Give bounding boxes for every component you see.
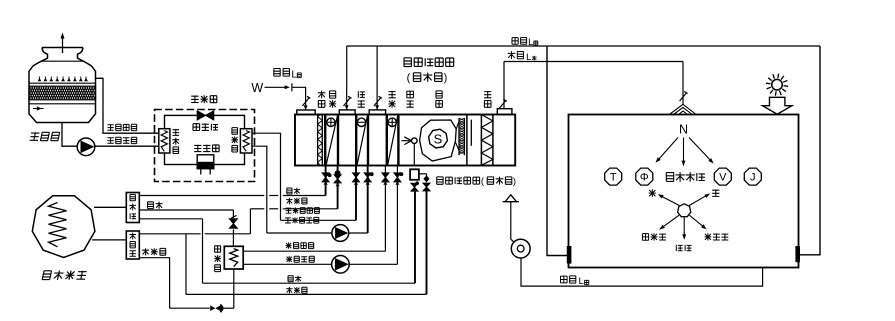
ceiling diffuser (nested chevrons) — [669, 104, 696, 114]
label cooling return water — [107, 124, 136, 130]
svg-text:): ) — [444, 72, 448, 84]
sun symbol — [772, 79, 783, 90]
pollutant source polygon — [678, 204, 691, 217]
cooling tower neck line — [41, 60, 85, 62]
throttle valve (filled bowtie) on loop top — [197, 111, 214, 120]
label hot water supply — [286, 256, 314, 262]
pipe steam line 1 to AHU preheater — [139, 195, 264, 197]
arrow harmful substances (down-right) — [689, 215, 703, 227]
label steam humidifier line — [288, 276, 301, 282]
pipe chilled supply riser — [367, 166, 369, 234]
pipe hot water return (line5) to AHU reheater — [243, 250, 385, 252]
cooling tower spray nozzles — [38, 78, 42, 82]
svg-text:Φ: Φ — [640, 172, 649, 184]
label condensate (ning-jie-shui) line2 — [286, 198, 307, 204]
svg-text:(: ( — [407, 72, 411, 84]
medium-efficiency filter band (zhong-xiao) — [480, 115, 482, 166]
cooling tower basin line — [29, 103, 96, 105]
cooling tower body — [29, 48, 96, 123]
cooling tower water level mark — [33, 108, 44, 110]
pipe humidifier steam riser — [414, 188, 416, 283]
spray humidifier nozzle (jia-shi) — [402, 140, 411, 142]
room return opening bar left — [567, 246, 572, 264]
svg-text:N: N — [679, 123, 688, 137]
evaporator box with coil — [240, 129, 252, 153]
pipe humidifier condensate riser — [426, 189, 428, 295]
valve reheat supply with actuator — [394, 173, 401, 182]
label chilled water supply — [285, 217, 319, 223]
pipe cooling return water (condenser to tower top) — [96, 78, 159, 133]
label supply air (jin-feng L-jin) — [504, 49, 538, 60]
pipe hot water supply (line6) via pump to AHU reheater — [243, 263, 331, 265]
humidifier steam valve — [415, 181, 419, 185]
solar radiation fat arrow — [763, 97, 792, 114]
label cooling supply water — [107, 137, 136, 143]
return air duct left leg — [547, 46, 569, 256]
steam trap symbol — [210, 305, 220, 311]
badge J octagon — [744, 168, 761, 185]
svg-text:L: L — [528, 37, 533, 48]
supply air duct line — [504, 61, 683, 63]
pipe condensate from tank up to line 2 (AHU preheater return) — [139, 233, 200, 235]
label compressor (ya-suo-ji) — [194, 145, 219, 152]
label condensate humidifier line — [286, 287, 307, 293]
steam distribution cylinder (fen-qi-gang) — [126, 193, 139, 223]
section label fan — [436, 91, 443, 107]
return air duct right leg — [799, 46, 821, 255]
pipe chilled water return (evaporator to AHU cooler) — [252, 133, 281, 220]
valve on heat exchanger steam line — [229, 219, 237, 229]
arrow heat (up-left) — [661, 196, 680, 206]
label condenser (leng-ning-qi) vertical — [172, 129, 179, 153]
chiller dashed enclosure — [155, 110, 255, 182]
air handling unit casing — [295, 115, 515, 166]
cooling tower fill material (crosshatch band) — [29, 86, 96, 100]
fan motor S octagon — [429, 129, 448, 148]
label chiller (leng-dong-ji) — [191, 95, 217, 103]
label throttle valve (jie-liu-fa) — [193, 124, 218, 131]
exhaust duct riser — [510, 202, 512, 240]
steam boiler vessel (polygon) — [32, 196, 95, 258]
boiler heating zigzag — [49, 203, 67, 247]
section label humidifier — [407, 91, 414, 107]
arrow microorganisms (down-left) — [663, 215, 680, 227]
pipe condensate return from humidifier to tank branch — [185, 234, 187, 295]
label condensate at tank — [142, 248, 166, 255]
fresh air inlet pad — [297, 110, 315, 115]
fresh air duct with damper — [292, 87, 306, 110]
fresh air arrow from W — [265, 86, 287, 88]
svg-text:J: J — [750, 172, 756, 184]
svg-text:L: L — [526, 52, 531, 63]
return air pad 3 — [369, 110, 385, 115]
label AHU bottom (kong-qi-chu-li-ji kong-tiao-qi) — [437, 177, 480, 184]
section label medium filter — [484, 91, 491, 107]
exhaust fan — [511, 239, 530, 258]
fan outlet flexible connection — [456, 122, 459, 130]
pipe steam line B to heat exchanger — [139, 209, 233, 211]
heat exchanger box with coil — [224, 246, 243, 269]
return air pad 2 — [339, 110, 355, 115]
arrow moisture (up-right) — [689, 195, 707, 205]
condenser box with coil — [159, 129, 170, 153]
pipe chilled return riser — [355, 166, 357, 221]
pump cooling water P1 — [77, 138, 95, 156]
pipe condensate tank bottom to steam trap to heat exchanger drain — [139, 258, 169, 309]
arrow N down — [683, 138, 685, 163]
exhaust discharge arrow symbol — [503, 201, 519, 203]
return air main duct line — [347, 45, 820, 47]
label exhaust air (pai-feng L-pai) — [561, 276, 576, 283]
humidifier water pan box — [410, 169, 419, 180]
label heat (re) — [649, 189, 656, 197]
supply air riser with damper — [503, 62, 505, 109]
arrow N to left — [658, 138, 678, 161]
svg-text:T: T — [610, 172, 617, 184]
valve preheater condensate with actuator dot — [334, 175, 341, 183]
label steam boiler (zheng-qi-guo-lu) — [42, 271, 87, 280]
fresh air tick mark — [291, 83, 293, 91]
arrow N to right — [689, 138, 711, 162]
surface cooler coil section (biao-leng) — [355, 115, 357, 166]
arrow particles (down) — [683, 217, 685, 236]
badge V octagon — [714, 168, 731, 185]
preheat coil section (yu-re) — [324, 115, 326, 166]
valve reheat return — [382, 173, 389, 182]
label chilled water return — [286, 207, 320, 213]
supply air pad 4 — [497, 109, 512, 115]
valve cooler return — [353, 173, 360, 182]
badge T octagon — [605, 168, 622, 185]
room return opening bar right — [795, 246, 800, 262]
label heat exchanger (huan-re-qi) vertical — [214, 246, 221, 272]
condensate tank (ning-shui-xiang) — [126, 231, 139, 259]
label steam (zheng-qi) line1 — [287, 188, 300, 194]
supply fan scroll (feng-ji) — [420, 120, 457, 161]
label particles (li-zi) — [676, 245, 691, 251]
pipe chilled water supply (evaporator via pump to AHU cooler) — [252, 146, 267, 233]
label conditioned room (kong-tiao-fang-jian) — [666, 172, 705, 181]
return air drop 2 with damper — [376, 46, 378, 110]
pipe cooling supply water (tower bottom via pump to condenser) — [62, 123, 77, 147]
label moisture (shi) — [712, 190, 719, 197]
section label reheat — [389, 91, 396, 108]
valve cooler supply with actuator — [364, 173, 371, 182]
svg-text:W: W — [251, 81, 263, 95]
svg-text:S: S — [434, 131, 443, 146]
svg-text:L: L — [579, 276, 584, 287]
svg-text:V: V — [719, 172, 727, 184]
pipe condensate tank to boiler — [92, 239, 126, 241]
label fresh air (xin-feng L-xin) — [274, 69, 290, 77]
section label surface cooler — [358, 91, 365, 107]
pipe preheater condensate drop (line2 riser) — [337, 166, 339, 209]
svg-text:L: L — [291, 69, 297, 81]
refrigerant loop — [165, 115, 245, 164]
conditioned room box — [569, 115, 799, 268]
pump hot water P3 — [332, 255, 350, 273]
return air drop 1 with damper — [346, 46, 348, 110]
exhaust duct from room — [521, 258, 763, 286]
short guide vane line — [470, 120, 472, 146]
pipe steam line to humidifier — [139, 218, 202, 220]
label cooling tower (leng-que-ta) — [30, 132, 60, 140]
valve preheater steam inlet with actuator — [322, 173, 329, 182]
compressor symbol — [197, 155, 214, 169]
label steam (zheng-qi) at cylinder — [148, 202, 163, 209]
label microorganisms (wei-sheng-wu) — [642, 233, 666, 240]
supply duct drop to room diffuser — [682, 62, 684, 105]
label return air (hui-feng L-hui) — [508, 36, 540, 45]
pipe boiler steam to distribution cylinder — [94, 206, 126, 208]
humidifier condensate branch with float valve — [419, 173, 427, 175]
coarse filter band (cu-xiao) — [317, 115, 319, 166]
label hot water return — [286, 242, 314, 248]
pump chilled water P2 — [332, 225, 349, 242]
cooling tower air outlet arrow — [62, 36, 64, 53]
label harmful substances (you-hai-wu) — [705, 233, 729, 240]
label evaporator (zheng-fa-qi) vertical — [231, 128, 238, 152]
badge Phi octagon — [636, 168, 653, 185]
AHU internal divider after fan — [466, 115, 468, 166]
svg-text:): ) — [513, 176, 516, 187]
section label preheat — [329, 91, 336, 108]
section label coarse filter — [318, 91, 326, 108]
label AHU top (kong-qi-chu-li-ji) — [404, 58, 454, 67]
reheat coil section (zai-re) — [386, 115, 388, 166]
